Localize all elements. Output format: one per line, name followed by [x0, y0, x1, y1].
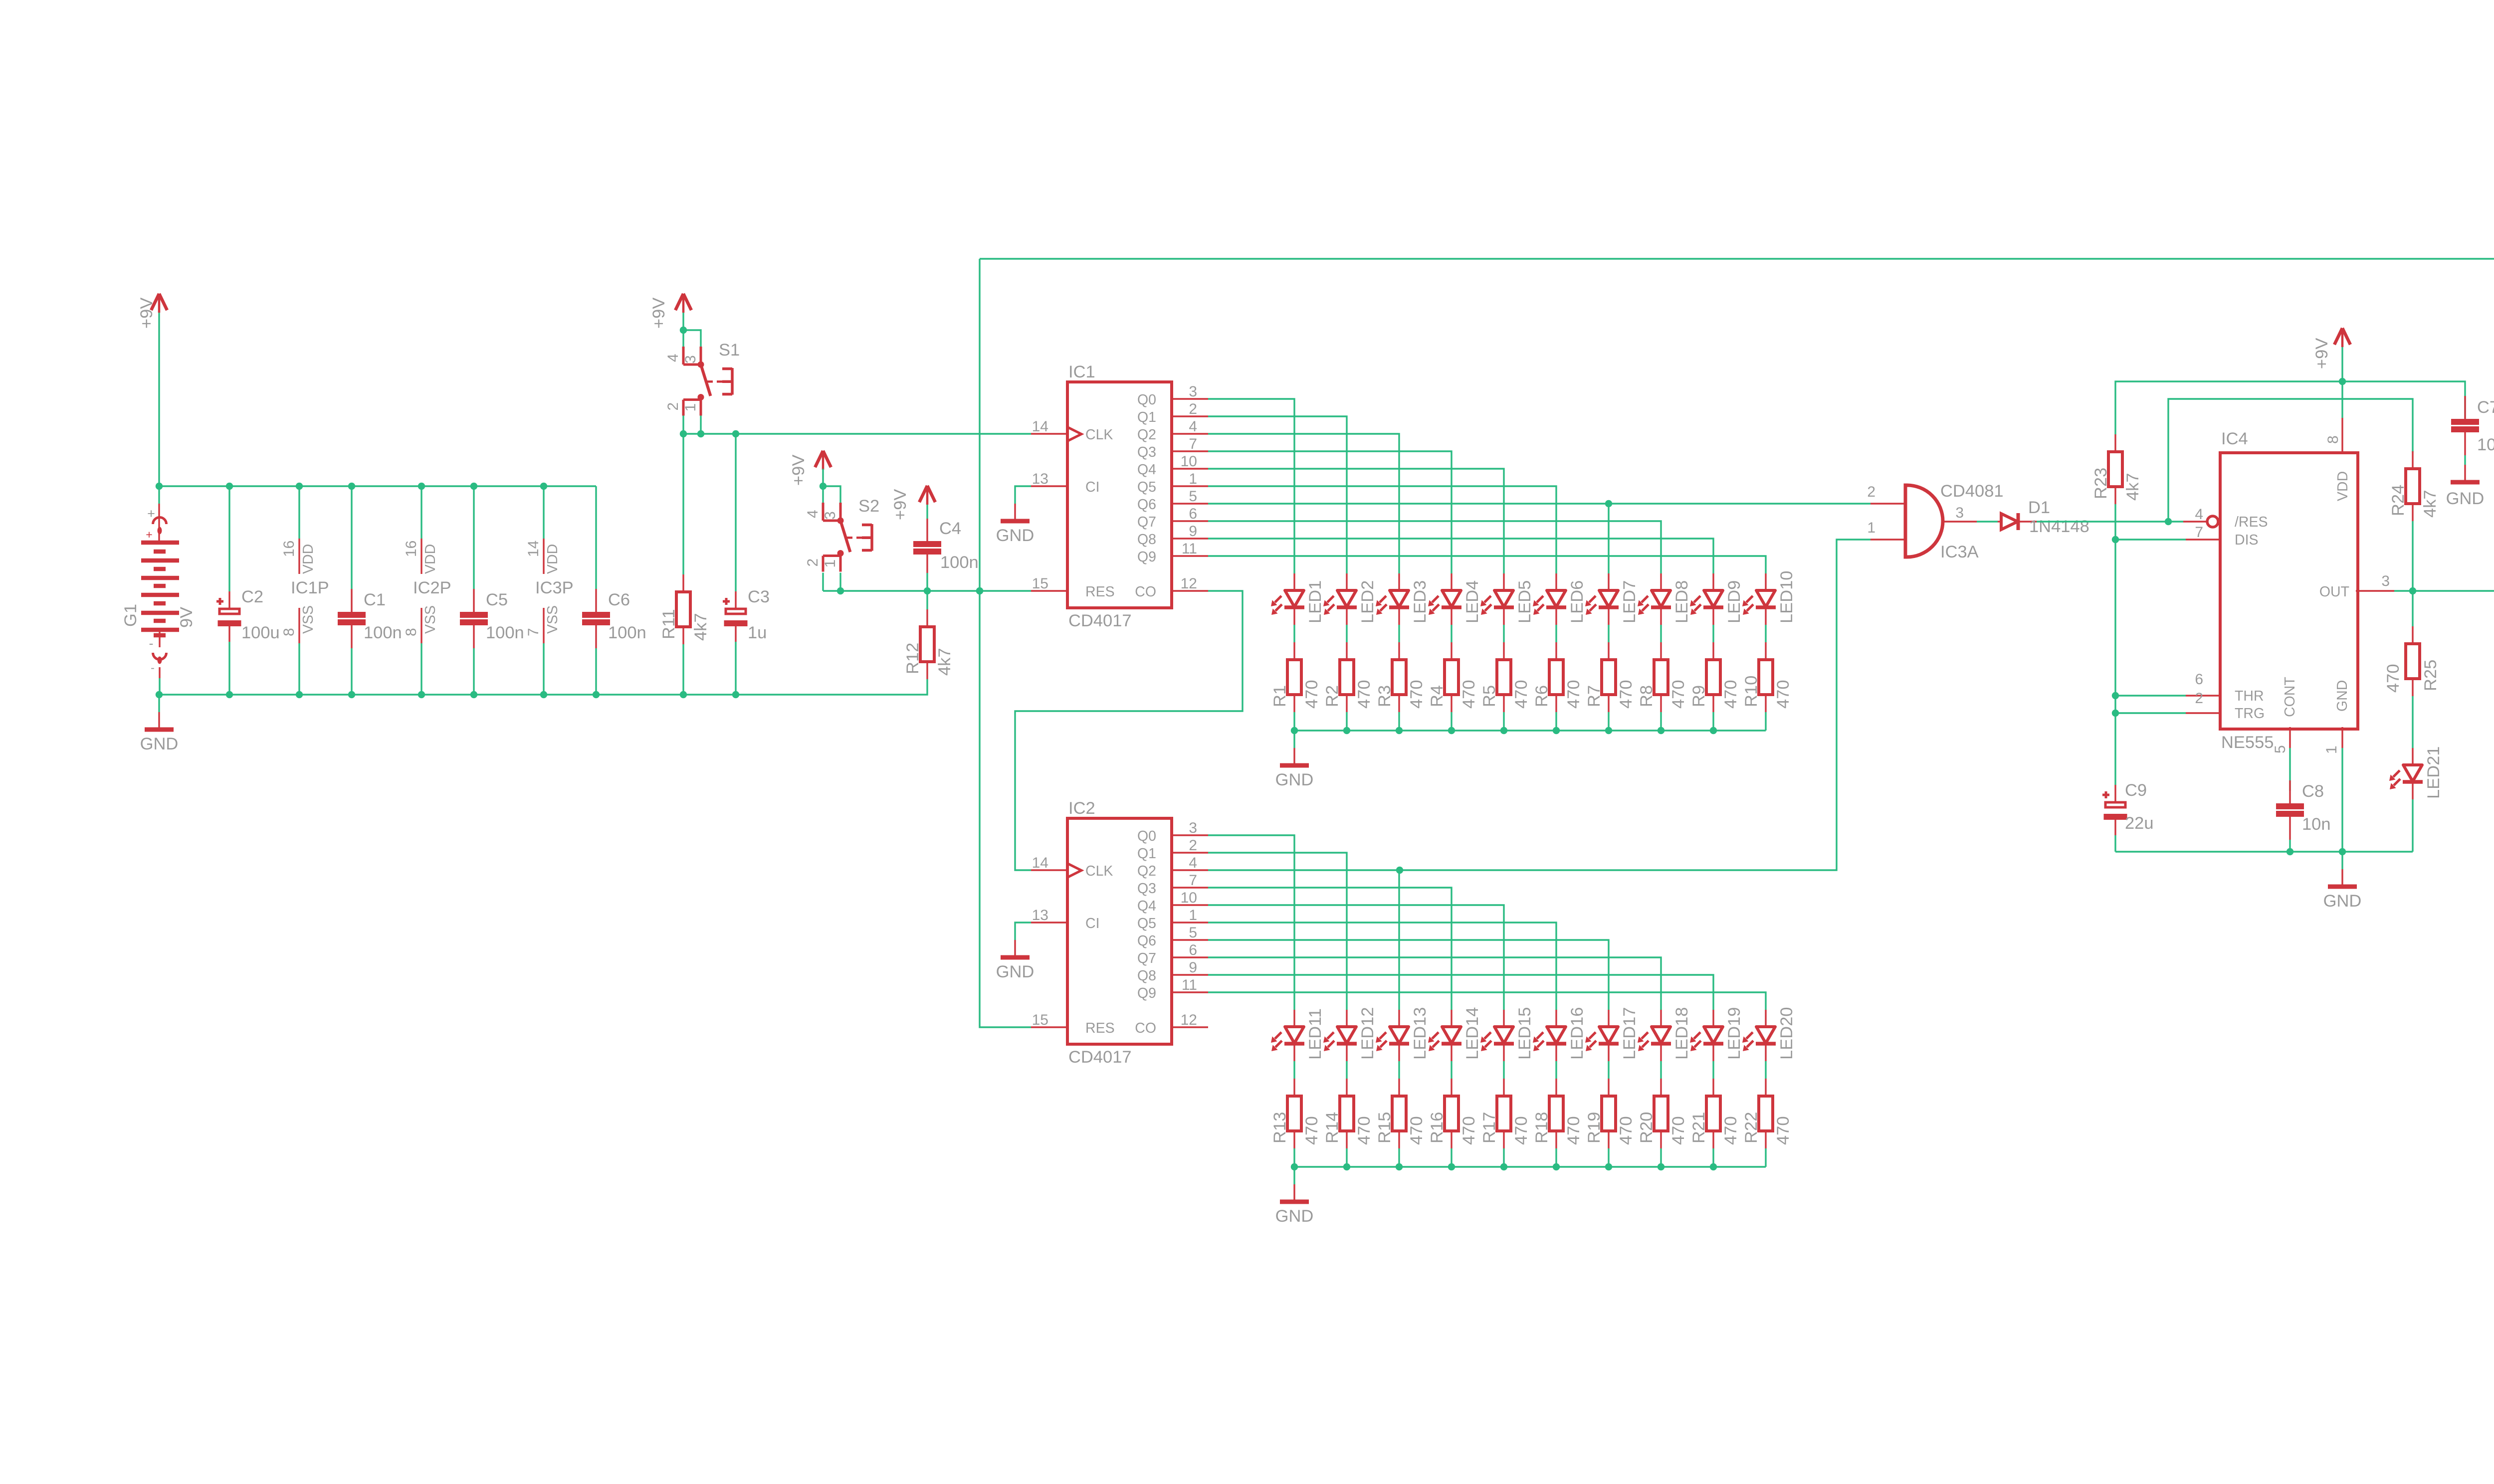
svg-text:LED14: LED14 [1463, 1007, 1482, 1060]
svg-text:2: 2 [665, 402, 681, 411]
svg-text:Q3: Q3 [1137, 444, 1156, 460]
555 pin VDD(8) [2325, 381, 2351, 501]
svg-text:R18: R18 [1532, 1112, 1551, 1143]
svg-text:IC3A: IC3A [1940, 543, 1979, 561]
wire LED2 to R2 [1346, 625, 1347, 642]
svg-text:R15: R15 [1375, 1112, 1394, 1143]
LED LED16 [1533, 1007, 1587, 1062]
svg-text:GND: GND [2334, 680, 2350, 712]
svg-text:Q6: Q6 [1137, 933, 1156, 949]
svg-text:VSS: VSS [545, 605, 561, 634]
resistor R21 470 [1689, 1079, 1740, 1148]
svg-text:13: 13 [1032, 471, 1048, 487]
svg-text:GND: GND [1275, 770, 1314, 789]
junction row1 rail [1553, 727, 1560, 734]
IC2 left pins CLK(14) CI(13) RES(15) [1031, 855, 1115, 1036]
wire OUT feedback to /RES net [2168, 399, 2413, 522]
svg-text:3: 3 [682, 355, 699, 364]
wire LED7 to R7 [1608, 625, 1609, 642]
capacitor C1 100n [338, 486, 402, 695]
svg-text:3: 3 [2381, 573, 2390, 589]
svg-text:9V: 9V [177, 607, 196, 628]
ground GND (555) [2323, 852, 2362, 911]
svg-text:470: 470 [1512, 680, 1531, 709]
svg-text:12: 12 [1181, 1012, 1197, 1028]
wire R3 to row1 rail [1398, 712, 1400, 731]
junction top rail [540, 483, 547, 490]
svg-text:10: 10 [1181, 890, 1197, 906]
resistor R10 470 [1742, 642, 1793, 712]
capacitor C6 100n [582, 486, 646, 695]
wire C9 to gnd rail [2114, 835, 2116, 852]
wire 555 GND pin to rail [2341, 748, 2343, 852]
wire LED15 to R17 [1503, 1061, 1504, 1079]
LED LED20 [1742, 1007, 1796, 1062]
wire LED row1 ground rail [1294, 730, 1766, 731]
svg-text:14: 14 [1032, 855, 1048, 871]
junction bottom rail [156, 691, 163, 698]
svg-text:12: 12 [1181, 575, 1197, 592]
svg-text:R23: R23 [2091, 468, 2110, 499]
wire LED19 to R21 [1712, 1061, 1714, 1079]
svg-text:Q2: Q2 [1137, 427, 1156, 443]
svg-text:470: 470 [1564, 1116, 1583, 1145]
svg-text:3: 3 [1189, 820, 1197, 836]
svg-text:+: + [146, 528, 152, 541]
svg-text:470: 470 [1355, 680, 1374, 709]
wire IC1 Q4 to LED5 [1208, 469, 1504, 573]
resistor R13 470 [1270, 1079, 1321, 1148]
svg-text:470: 470 [1617, 680, 1636, 709]
capacitor C5 100n [460, 486, 524, 695]
svg-text:7: 7 [2195, 524, 2203, 541]
LED LED6 [1533, 573, 1587, 625]
svg-text:-: - [149, 636, 154, 651]
svg-text:470: 470 [1355, 1116, 1374, 1145]
wire R6 to row1 rail [1555, 712, 1557, 731]
wire LED13 to R15 [1398, 1061, 1400, 1079]
svg-text:C3: C3 [748, 587, 770, 606]
svg-text:IC4: IC4 [2221, 429, 2248, 448]
wire C8 to gnd rail [2289, 840, 2290, 852]
svg-text:Q5: Q5 [1137, 479, 1156, 495]
wire IC1 Q1 to LED2 [1208, 416, 1347, 573]
svg-text:LED8: LED8 [1672, 580, 1691, 623]
LED LED5 [1480, 573, 1534, 625]
svg-text:470: 470 [1721, 680, 1740, 709]
svg-text:LED5: LED5 [1515, 580, 1534, 623]
svg-text:LED20: LED20 [1777, 1007, 1796, 1060]
svg-text:R10: R10 [1742, 676, 1761, 707]
svg-text:11: 11 [1182, 541, 1197, 557]
LED LED18 [1638, 1007, 1691, 1062]
svg-text:16: 16 [403, 541, 419, 557]
resistor R5 470 [1480, 642, 1531, 712]
junction gnd rail C8 [2286, 848, 2293, 855]
svg-text:8: 8 [403, 628, 419, 636]
IC2P power pins VDD/VSS [403, 486, 451, 695]
junction row2 rail [1658, 1163, 1664, 1170]
wire R8 to row1 rail [1660, 712, 1662, 731]
svg-text:LED1: LED1 [1306, 580, 1325, 623]
svg-text:5: 5 [1189, 488, 1197, 505]
svg-text:C1: C1 [364, 590, 386, 609]
wire LED3 to R3 [1398, 625, 1400, 642]
junction bottom rail [226, 691, 233, 698]
ground GND (IC2 CI) [996, 923, 1035, 981]
svg-text:R2: R2 [1323, 685, 1342, 707]
power +9V arrow (555) [2312, 328, 2350, 369]
svg-text:3: 3 [822, 511, 838, 520]
svg-text:LED13: LED13 [1411, 1007, 1430, 1060]
capacitor C4 100n [913, 519, 979, 591]
svg-text:1u: 1u [748, 623, 767, 642]
junction Q6 net to gate (LED7 column) [1605, 500, 1612, 507]
junction row2 rail [1605, 1163, 1612, 1170]
wire DIS to 555 [2115, 539, 2186, 540]
svg-text:R25: R25 [2421, 660, 2440, 691]
svg-text:R11: R11 [659, 609, 678, 639]
resistor R14 470 [1323, 1079, 1374, 1148]
svg-text:R3: R3 [1375, 685, 1394, 707]
resistor R9 470 [1689, 642, 1740, 712]
555 pin CONT(5) [2272, 677, 2298, 753]
svg-text:VSS: VSS [300, 605, 316, 634]
junction row2 rail [1291, 1163, 1298, 1170]
capacitor C2 100u [216, 486, 280, 695]
svg-text:IC1: IC1 [1068, 363, 1095, 381]
wire R15 to row2 rail [1398, 1148, 1400, 1167]
svg-text:R17: R17 [1480, 1112, 1499, 1143]
555 pin GND(1) [2323, 680, 2350, 754]
svg-text:GND: GND [140, 735, 179, 753]
svg-text:VSS: VSS [422, 605, 438, 634]
svg-text:CI: CI [1085, 916, 1100, 931]
svg-text:2: 2 [805, 558, 821, 567]
svg-text:+9V: +9V [649, 298, 668, 329]
wire RES net vertical (top wire to IC1/IC2 RES) [980, 259, 1031, 1027]
resistor R15 470 [1375, 1079, 1426, 1148]
svg-text:100n: 100n [364, 623, 402, 642]
svg-text:16: 16 [281, 541, 297, 557]
svg-text:470: 470 [1459, 1116, 1478, 1145]
LED LED13 [1376, 1007, 1430, 1062]
wire LED20 to R22 [1765, 1061, 1766, 1079]
IC1 output pins Q0-Q9(3,2,4,7,10,1,5,6,9,11) CO(12) [1135, 383, 1208, 600]
junction CLK rail C3 [732, 430, 739, 437]
svg-text:5: 5 [1189, 925, 1197, 941]
svg-text:4k7: 4k7 [935, 648, 954, 676]
wire LED4 to R4 [1451, 625, 1452, 642]
junction bottom rail [540, 691, 547, 698]
resistor R8 470 [1637, 642, 1688, 712]
wire R4 to row1 rail [1451, 712, 1452, 731]
555 pin OUT(3) [2319, 573, 2394, 600]
junction row2 rail [1343, 1163, 1350, 1170]
svg-text:S1: S1 [719, 341, 740, 360]
junction row2 rail [1710, 1163, 1717, 1170]
svg-text:TRG: TRG [2235, 706, 2265, 722]
wire LED1 to R1 [1293, 625, 1295, 642]
LED LED1 [1271, 573, 1325, 625]
LED LED12 [1323, 1007, 1377, 1062]
svg-text:470: 470 [1459, 680, 1478, 709]
svg-text:GND: GND [1275, 1207, 1314, 1226]
junction /RES net [2165, 518, 2172, 525]
wire +9V to S1 [682, 313, 684, 330]
resistor R11 4k7 [659, 434, 710, 695]
wire S2 to RES rail [823, 573, 840, 591]
wire IC2 Q0 to LED11 [1208, 835, 1294, 1010]
LED LED3 [1376, 573, 1430, 625]
svg-text:R9: R9 [1689, 685, 1708, 707]
IC3P power pins VDD/VSS [525, 486, 574, 695]
svg-text:470: 470 [1669, 1116, 1688, 1145]
svg-text:GND: GND [996, 962, 1035, 981]
power +9V arrow (S2) [789, 451, 831, 486]
svg-text:R13: R13 [1270, 1112, 1289, 1143]
resistor R16 470 [1428, 1079, 1478, 1148]
svg-text:2: 2 [2195, 690, 2203, 707]
IC2 output pins Q0-Q9(3,2,4,7,10,1,5,6,9,11) CO(12) [1135, 820, 1208, 1036]
svg-text:100n: 100n [608, 623, 646, 642]
svg-text:CONT: CONT [2282, 677, 2298, 717]
wire IC1 Q0 to LED1 [1208, 399, 1294, 573]
svg-text:1: 1 [822, 559, 838, 568]
svg-text:5: 5 [2272, 745, 2288, 753]
svg-text:1: 1 [2323, 745, 2340, 754]
wire IC1 Q2 to LED3 [1208, 434, 1399, 573]
svg-text:1N4148: 1N4148 [2029, 517, 2089, 536]
svg-text:LED18: LED18 [1672, 1007, 1691, 1060]
wire 555 ground rail [2115, 851, 2413, 852]
svg-text:Q4: Q4 [1137, 898, 1156, 914]
wire IC2 Q9 to LED20 [1208, 992, 1766, 1010]
IC1P power pins VDD/VSS [281, 486, 329, 695]
wire LED11 to R13 [1293, 1061, 1295, 1079]
junction CLK rail S1 pins [680, 430, 704, 437]
wire R19 to row2 rail [1608, 1148, 1609, 1167]
wire IC2 Q5 to LED16 [1208, 923, 1556, 1010]
svg-text:D1: D1 [2028, 498, 2050, 517]
wire R7 to row1 rail [1608, 712, 1609, 731]
wire R17 to row2 rail [1503, 1148, 1504, 1167]
LED LED17 [1585, 1007, 1639, 1062]
wire IC1 Q3 to LED4 [1208, 451, 1452, 573]
svg-text:1: 1 [1867, 520, 1875, 536]
svg-text:LED11: LED11 [1306, 1008, 1325, 1060]
LED LED19 [1690, 1007, 1744, 1062]
svg-text:4k7: 4k7 [2123, 473, 2142, 501]
wire THR to 555 [2115, 695, 2186, 696]
wire R1 to row1 rail [1293, 712, 1295, 731]
junction row1 rail [1343, 727, 1350, 734]
svg-text:CLK: CLK [1085, 427, 1113, 443]
svg-text:+9V: +9V [891, 489, 910, 520]
svg-text:-: - [151, 661, 155, 674]
resistor R23 4k7 [2091, 434, 2142, 504]
power +9V arrow (C4) [891, 486, 935, 520]
wire R9 to row1 rail [1712, 712, 1714, 731]
AND gate IC3A CD4081 [1867, 482, 2003, 561]
svg-text:3: 3 [1955, 505, 1964, 521]
svg-text:+9V: +9V [2312, 338, 2331, 369]
resistor R17 470 [1480, 1079, 1531, 1148]
wire 555 OUT to top horizontal run [980, 258, 2494, 259]
svg-text:Q4: Q4 [1137, 462, 1156, 478]
svg-text:3: 3 [1189, 383, 1197, 400]
svg-text:470: 470 [1774, 1116, 1793, 1145]
wire IC1 Q9 to LED10 [1208, 556, 1766, 573]
555 pin TRG(2) [2186, 690, 2265, 722]
555 pin DIS(7) [2186, 524, 2259, 548]
wire IC1 CO to IC2 CLK [1015, 591, 1243, 870]
svg-text:Q7: Q7 [1137, 950, 1156, 966]
svg-text:LED7: LED7 [1620, 580, 1639, 623]
wire R10 to row1 rail [1765, 712, 1766, 731]
power +9V arrow (battery branch) [137, 294, 167, 329]
svg-text:4k7: 4k7 [691, 613, 710, 641]
resistor R7 470 [1585, 642, 1636, 712]
wire LED18 to R20 [1660, 1061, 1662, 1079]
wire TRG to 555 [2115, 712, 2186, 714]
wire LED17 to R19 [1608, 1061, 1609, 1079]
svg-text:8: 8 [2325, 435, 2341, 444]
wire CLK rail (S1 to IC1 CLK) [683, 433, 1031, 434]
wire R5 to row1 rail [1503, 712, 1504, 731]
svg-text:6: 6 [1189, 942, 1197, 958]
svg-text:LED4: LED4 [1463, 580, 1482, 623]
wire LED16 to R18 [1555, 1061, 1557, 1079]
wire R25 to LED21 [2412, 696, 2413, 748]
svg-text:7: 7 [1189, 872, 1197, 889]
wire IC2 Q3 to LED14 [1208, 888, 1452, 1010]
svg-text:C6: C6 [608, 590, 630, 609]
svg-text:OUT: OUT [2319, 584, 2349, 600]
junction row1 rail [1658, 727, 1664, 734]
svg-text:8: 8 [281, 628, 297, 636]
LED LED7 [1585, 573, 1639, 625]
svg-text:VDD: VDD [300, 544, 316, 574]
junction row1 rail [1396, 727, 1403, 734]
LED LED15 [1480, 1007, 1534, 1062]
svg-text:14: 14 [525, 541, 542, 557]
IC IC2 CD4017 box [1067, 799, 1172, 1067]
svg-text:470: 470 [1407, 680, 1426, 709]
svg-text:CD4081: CD4081 [1940, 482, 2004, 501]
svg-text:4: 4 [665, 354, 681, 362]
junction bottom rail [348, 691, 355, 698]
svg-text:DIS: DIS [2235, 532, 2259, 548]
junction row1 rail [1710, 727, 1717, 734]
wire OUT net [2394, 259, 2494, 591]
svg-text:CO: CO [1135, 584, 1156, 600]
wire R23/DIS/THR/TRG vertical [2114, 504, 2116, 785]
svg-text:LED6: LED6 [1568, 580, 1587, 623]
svg-text:G1: G1 [121, 604, 140, 627]
svg-text:Q6: Q6 [1137, 497, 1156, 513]
svg-text:IC3P: IC3P [535, 578, 574, 597]
LED LED4 [1428, 573, 1482, 625]
resistor R2 470 [1323, 642, 1374, 712]
resistor R20 470 [1637, 1079, 1688, 1148]
junction bottom rail [680, 691, 687, 698]
wire IC2 Q4 to LED15 [1208, 905, 1504, 1010]
junction row2 rail [1500, 1163, 1507, 1170]
junction RES rail vertical [976, 587, 983, 594]
svg-text:9: 9 [1189, 523, 1197, 540]
wire +9V arrow to rail [2341, 347, 2343, 381]
junction row2 rail [1448, 1163, 1455, 1170]
svg-text:R22: R22 [1742, 1112, 1761, 1143]
svg-text:Q0: Q0 [1137, 392, 1156, 408]
LED LED8 [1638, 573, 1691, 625]
555 pin /RES(4) [2183, 506, 2268, 530]
LED LED11 [1271, 1008, 1325, 1061]
svg-text:VDD: VDD [422, 544, 438, 574]
capacitor C8 10n [2276, 748, 2331, 840]
wire IC1 Q8 to LED9 [1208, 539, 1713, 573]
svg-text:1: 1 [682, 403, 699, 412]
resistor R4 470 [1428, 642, 1478, 712]
svg-text:Q9: Q9 [1137, 549, 1156, 565]
svg-text:Q3: Q3 [1137, 881, 1156, 897]
junction row1 rail [1291, 727, 1298, 734]
svg-text:R20: R20 [1637, 1112, 1656, 1143]
wire R18 to row2 rail [1555, 1148, 1557, 1167]
junction bottom rail [593, 691, 600, 698]
wire LED row2 ground rail [1294, 1166, 1766, 1167]
wire R22 to row2 rail [1765, 1148, 1766, 1167]
svg-text:C8: C8 [2302, 782, 2324, 801]
svg-text:100n: 100n [940, 553, 979, 572]
junction S1 top [680, 327, 687, 334]
555 pin THR(6) [2186, 671, 2264, 704]
junction top rail [296, 483, 303, 490]
wire LED6 to R6 [1555, 625, 1557, 642]
wire bottom ground rail [159, 679, 927, 695]
svg-text:Q2: Q2 [1137, 863, 1156, 879]
svg-text:10: 10 [1181, 453, 1197, 470]
wire LED21 to gnd rail [2412, 799, 2413, 852]
svg-text:R24: R24 [2389, 485, 2408, 516]
svg-text:LED17: LED17 [1620, 1007, 1639, 1060]
svg-text:7: 7 [1189, 436, 1197, 452]
svg-text:470: 470 [1774, 680, 1793, 709]
svg-text:R16: R16 [1428, 1112, 1447, 1143]
junction S2 top [820, 483, 827, 490]
svg-text:2: 2 [1189, 401, 1197, 417]
svg-text:RES: RES [1085, 584, 1115, 600]
svg-text:470: 470 [1302, 1116, 1321, 1145]
junction bottom rail [470, 691, 477, 698]
battery G1 9V [121, 486, 196, 695]
IC IC4 NE555 box [2220, 429, 2358, 752]
svg-text:470: 470 [1512, 1116, 1531, 1145]
svg-text:CI: CI [1085, 479, 1100, 495]
svg-text:THR: THR [2235, 688, 2264, 704]
wire +9V to S2 [822, 469, 824, 486]
junction row1 rail [1605, 727, 1612, 734]
svg-text:100n: 100n [486, 623, 524, 642]
svg-text:CLK: CLK [1085, 863, 1113, 879]
svg-text:Q8: Q8 [1137, 968, 1156, 984]
svg-text:10n: 10n [2302, 815, 2331, 834]
svg-text:R4: R4 [1428, 685, 1447, 707]
ground GND (IC1 CI) [996, 486, 1035, 545]
LED LED14 [1428, 1007, 1482, 1062]
svg-text:R12: R12 [903, 643, 922, 674]
